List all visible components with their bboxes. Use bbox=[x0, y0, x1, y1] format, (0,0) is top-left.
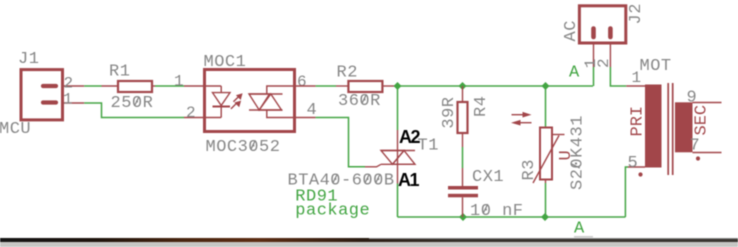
svg-text:AC: AC bbox=[562, 20, 581, 41]
svg-text:2: 2 bbox=[595, 58, 613, 68]
svg-text:5: 5 bbox=[628, 154, 639, 173]
svg-text:9: 9 bbox=[687, 88, 698, 107]
svg-text:A1: A1 bbox=[398, 170, 419, 190]
svg-text:R1: R1 bbox=[109, 63, 130, 82]
svg-text:R4: R4 bbox=[472, 96, 491, 117]
svg-text:J2: J2 bbox=[627, 3, 646, 24]
svg-text:MOC3052: MOC3052 bbox=[206, 138, 281, 157]
svg-text:MCU: MCU bbox=[0, 120, 31, 139]
svg-text:1: 1 bbox=[63, 91, 73, 109]
svg-text:PRI: PRI bbox=[629, 106, 648, 137]
svg-text:J1: J1 bbox=[18, 50, 39, 69]
svg-text:package: package bbox=[295, 202, 370, 221]
svg-text:MOT: MOT bbox=[640, 57, 672, 76]
svg-text:MOC1: MOC1 bbox=[204, 53, 247, 72]
svg-text:6: 6 bbox=[297, 73, 307, 91]
svg-text:A: A bbox=[569, 64, 580, 83]
svg-text:U: U bbox=[557, 150, 576, 160]
svg-text:7: 7 bbox=[690, 137, 701, 156]
svg-text:CX1: CX1 bbox=[472, 168, 504, 187]
svg-text:1: 1 bbox=[632, 69, 642, 87]
svg-text:1: 1 bbox=[174, 72, 184, 90]
svg-text:R2: R2 bbox=[337, 63, 358, 82]
svg-text:T1: T1 bbox=[418, 137, 439, 156]
svg-text:A: A bbox=[574, 219, 585, 238]
svg-text:360R: 360R bbox=[338, 92, 381, 111]
svg-text:R3: R3 bbox=[520, 159, 539, 180]
svg-text:250R: 250R bbox=[111, 94, 154, 113]
svg-text:2: 2 bbox=[186, 104, 196, 122]
svg-text:SEC: SEC bbox=[693, 105, 712, 136]
svg-text:39R: 39R bbox=[440, 96, 459, 128]
svg-text:10 nF: 10 nF bbox=[470, 202, 524, 221]
